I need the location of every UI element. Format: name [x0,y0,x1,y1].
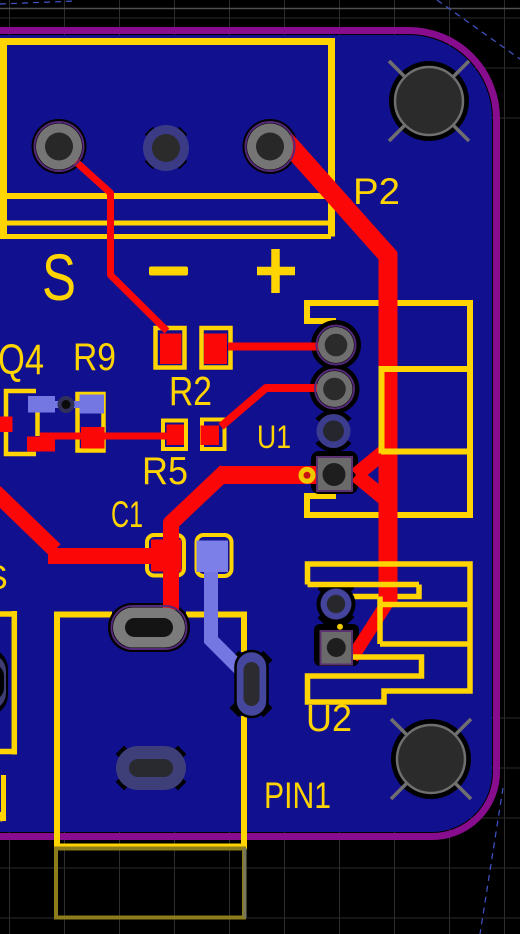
pad R2 right [204,334,227,365]
via near U1 pad D [301,469,313,481]
pad R9 top (B.Cu) [80,395,105,414]
left edge component bracket [0,611,14,755]
pad Q4 left (F.Cu) [0,417,13,433]
wire R2 to U1 pad A [228,343,335,351]
oval pad PIN1 bottom (unplated) [116,746,186,790]
pad U1-A [317,326,356,365]
wire C1 to slot pad bottom copper [211,570,249,678]
pad U1-D square [317,457,352,491]
wire Q4/R9 to R5 [40,433,172,440]
B.Cu TRACES (indigo) [50,405,249,679]
pad U2 round clearance halo [317,585,356,624]
svg-text:S: S [42,240,76,314]
dashed guide line bottom-right [480,788,503,934]
pad C1 left (F.Cu) [151,540,182,572]
pad P2-2 [143,125,189,171]
pad U1-D clearance halo [311,451,358,494]
pad U1-C clearance arcs [319,441,348,448]
silk re-draw over traces: U1 notch lines [379,366,385,454]
pad P2-1 clearance halo [32,119,87,174]
svg-text:S: S [0,559,8,597]
via Q4-R9 [58,396,75,413]
oval pad right clearance notches [229,651,243,665]
oval pad left-edge clearance halo [0,648,8,716]
silk dot U2 pin1 [337,624,343,630]
pad P2-1 [35,122,84,171]
svg-text:P2: P2 [353,171,400,212]
wire Q4 to R9 bottom copper [50,401,92,408]
pad P2-2 clearance notches [145,127,161,143]
svg-text:U1: U1 [257,419,291,455]
minus polarity [149,267,188,276]
oval pad left edge component [0,654,6,710]
wire left to C1 [0,471,226,610]
pad U1-B clearance halo [310,364,360,414]
pad R5 left [167,425,185,446]
connector P2 body outline [0,42,332,237]
pad U1-B [315,370,354,409]
mounting hole top right [389,61,469,141]
label N partial left edge [0,775,4,821]
pad R5 right [201,426,220,446]
oval pad PIN1-bottom clearance notches [116,746,129,759]
oval pad PIN1-top clearance halo [108,603,190,652]
F.Cu TRACES (red) [0,140,390,658]
pad U1-A clearance halo [311,320,361,370]
PIN1 lower body (off-board, dim) [56,849,244,918]
svg-text:R9: R9 [73,336,116,379]
mounting hole bottom right [391,719,471,799]
svg-text:U2: U2 [306,698,352,740]
capacitor C1 pad outlines [147,535,184,576]
pad P2-3 [246,122,295,171]
wire to U2 pad [352,600,389,658]
svg-text:PIN1: PIN1 [264,775,331,816]
pad R2 left [160,334,182,365]
pad P2-3 clearance halo [243,119,298,174]
pad C1 right (B.Cu) [197,541,229,573]
pad U2 round [321,589,352,620]
resistor R2 pad outlines [156,328,185,368]
connector U2 outline (under-copper part) [350,585,419,597]
pad Q4 top (B.Cu) [28,396,55,413]
pad U2 square [321,631,353,665]
svg-text:R5: R5 [142,450,188,493]
connector U2 outline (over-copper part) [308,564,471,702]
connector PIN1 body outline [54,615,247,847]
pad R9 bottom (F.Cu) [81,427,105,449]
transistor Q4 outline [6,391,38,454]
pad Q4 bottom (F.Cu) [27,437,55,452]
dashed guide line top-left [0,1,76,4]
svg-text:C1: C1 [111,494,143,535]
oval pad right (B.Cu slot) [236,651,268,717]
oval pad PIN1 top (plated slot) [112,606,187,649]
resistor R5 pad outlines [163,421,186,450]
resistor R9 outline [78,394,104,451]
pad U1-C [317,414,351,448]
plus polarity [257,249,295,293]
dashed guide line top-right [437,0,520,59]
svg-text:R2: R2 [169,368,212,414]
pad U2 square clearance halo [314,624,359,666]
wire R5 to U1 pad B [221,388,335,427]
connector U1 outline [304,303,470,515]
wire junction at U1 pad D [356,447,390,503]
svg-text:Q4: Q4 [0,336,44,384]
wire pad3 thick power trace [285,140,390,602]
bright grid axis line [0,8,520,10]
wire pad1 to R2 [59,147,167,332]
